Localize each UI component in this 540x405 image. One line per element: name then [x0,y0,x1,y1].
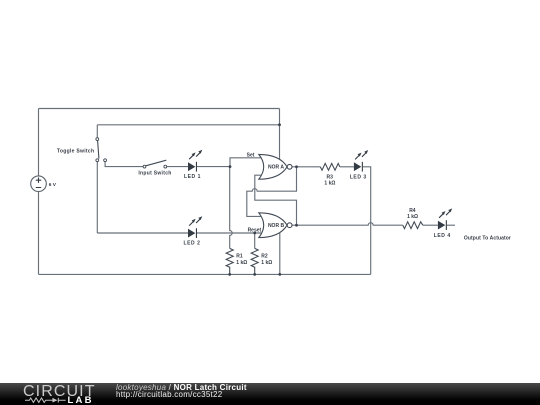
svg-text:Output To Actuator: Output To Actuator [464,235,511,241]
node NOR B output junction [295,224,298,227]
wire LED3 branch to bottom rail [363,167,371,275]
wire feedback NOR A out to NOR B in1 with hop [247,167,297,217]
svg-text:1 kΩ: 1 kΩ [236,260,247,266]
svg-text:R1: R1 [236,253,243,259]
resistor R1 [226,248,247,274]
toggle switch SW1 [57,138,107,162]
node reset junction [253,232,256,235]
wire top rail [39,108,280,110]
wire pole to input switch [105,162,143,167]
node rail R1 junction [228,273,231,276]
svg-text:LED 2: LED 2 [184,240,201,246]
wire LED1 to node [197,166,230,168]
svg-text:1 kΩ: 1 kΩ [407,214,418,220]
input switch SW2 [138,160,171,176]
logo resistor-diode doodle [25,397,67,404]
resistor R4 [403,208,423,229]
svg-text:Set: Set [247,152,255,158]
svg-text:R2: R2 [261,253,268,259]
wire node down to R1 with hop [230,167,233,249]
svg-text:6 V: 6 V [49,182,57,188]
wire rail 2 toggle to drop [97,124,279,126]
footer bar [0,383,540,405]
node rail2 junction [278,123,281,126]
svg-text:NOR A: NOR A [268,165,284,171]
NOR gate U1 NOR A [259,154,292,179]
LED D3 [350,150,368,180]
svg-text:Toggle Switch: Toggle Switch [57,149,94,155]
wire toggle bottom drop [96,162,98,233]
NOR gate U2 NOR B [259,213,292,238]
wire R3 to LED3 [340,166,354,168]
wire feedback NOR B out to NOR A in2 [255,175,297,225]
wire source bottom lead [38,192,40,275]
wire input switch to LED1 [167,166,188,168]
wire LED2 row left [97,232,188,234]
wire toggle top lead [96,125,98,138]
svg-text:LED 3: LED 3 [350,174,367,180]
voltage source V1 [31,176,57,192]
LED D2 [184,216,203,246]
wire reset node to R2 [254,233,256,248]
svg-text:1 kΩ: 1 kΩ [324,180,335,186]
LED D1 [184,150,202,180]
svg-text:NOR B: NOR B [268,223,285,229]
node rail R2 junction [253,273,256,276]
node NOR A output junction [295,165,298,168]
footer text [116,384,247,400]
wire bottom rail [39,273,371,275]
wire LED4 open end [447,224,455,226]
wire R4 to LED4 [423,224,438,226]
node rail gate stub junction [278,273,281,276]
node LED1 set junction [229,165,232,168]
wire right drop to NOR A top [279,109,281,160]
resistor R3 [320,163,340,186]
svg-text:LED 1: LED 1 [184,174,201,180]
svg-text:LED 4: LED 4 [434,233,451,239]
wire NOR B output row [292,223,403,225]
wire NOR B bottom stub [279,232,281,274]
CircuitLab logo [23,386,96,398]
resistor R2 [251,248,272,274]
wire top lead of source [38,109,40,177]
LED D4 [434,208,452,239]
svg-text:Input Switch: Input Switch [138,170,171,176]
wire set riser [230,158,261,167]
svg-text:1 kΩ: 1 kΩ [261,260,272,266]
wire LED2 bar to reset input [197,232,261,234]
wire NOR A output to R3 [292,166,320,168]
